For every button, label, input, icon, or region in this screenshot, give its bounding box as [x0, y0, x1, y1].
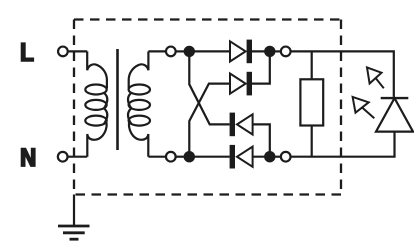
transformer secondary winding	[128, 51, 150, 156]
label N	[21, 148, 36, 167]
wire secondary top to terminal	[148, 50, 165, 52]
wire D1 to node C	[252, 50, 270, 52]
terminal L	[58, 47, 68, 57]
ground	[58, 195, 90, 240]
wire node C to terminal	[275, 50, 280, 52]
wire secondary bottom to terminal	[148, 156, 165, 158]
transformer T1 core	[116, 49, 119, 150]
wire output top rail	[290, 51, 393, 97]
resistor R1 bottom lead	[311, 126, 313, 157]
wire node B to D4	[189, 156, 229, 158]
LED arrow 2	[353, 97, 375, 118]
wire terminal to node B	[176, 156, 189, 158]
wire terminal to node A	[176, 50, 189, 52]
wire L to primary	[69, 50, 88, 52]
wire node D to terminal	[275, 156, 280, 158]
LED arrow 1	[367, 67, 384, 88]
label L	[21, 42, 34, 61]
terminal N	[58, 152, 68, 162]
node C (top-right junction)	[264, 46, 275, 57]
terminal secondary top	[166, 47, 176, 57]
wire node A to D1	[189, 50, 230, 52]
diode D2	[230, 72, 252, 96]
resistor R1	[300, 79, 323, 125]
diode D1	[230, 40, 252, 64]
LED D5	[376, 98, 413, 157]
diode D3	[230, 113, 253, 137]
wire D2 cathode up to node C	[252, 51, 270, 83]
wire D4 to node D	[253, 156, 270, 158]
wire crossing: node A to D3	[189, 51, 229, 124]
wire N to primary	[68, 156, 87, 158]
node B (bottom-left junction)	[184, 151, 195, 162]
diode D4	[230, 145, 253, 169]
terminal output bottom	[281, 152, 291, 162]
wire crossing: node B to D2	[189, 84, 230, 157]
transformer primary winding	[85, 51, 107, 156]
resistor R1 top lead	[311, 51, 313, 79]
node D (bottom-right junction)	[264, 151, 275, 162]
wire D3 anode down to node D	[253, 124, 270, 156]
wire output bottom rail	[290, 156, 395, 158]
enclosure dashed box	[74, 20, 341, 195]
node A (top-left junction)	[184, 46, 195, 57]
terminal output top	[281, 47, 291, 57]
terminal secondary bottom	[166, 152, 176, 162]
